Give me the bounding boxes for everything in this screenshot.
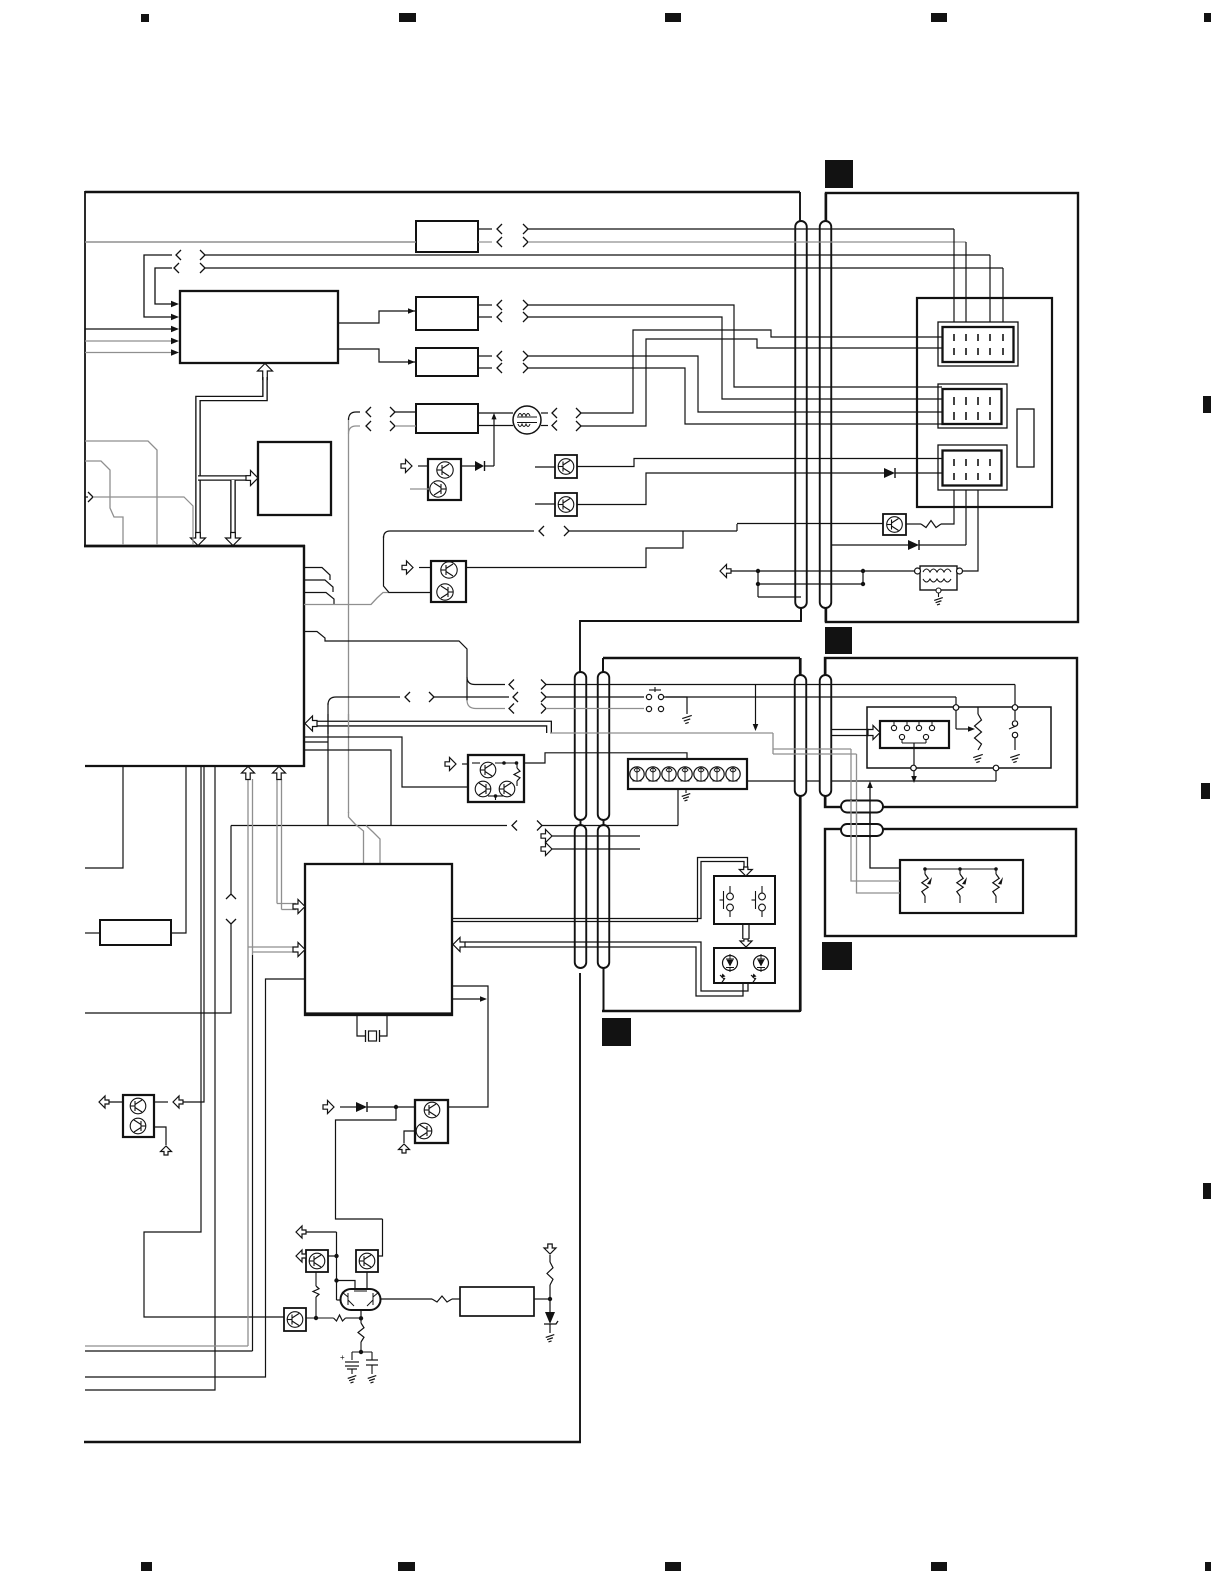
oscillator box X2 — [460, 1287, 534, 1316]
wire L1 to CN201 staircase 1 — [581, 330, 942, 413]
hollow bus arrow into CPU top 2 — [226, 533, 241, 546]
display board bottom edge — [602, 1010, 800, 1013]
wire y684.5 resume — [541, 680, 546, 690]
inner box bottom nodes — [911, 765, 917, 771]
Q16 output resistor to Q17 emitter node — [306, 1317, 334, 1319]
wire with breaks y708.5 gray resume — [541, 704, 546, 714]
Q9 wires — [535, 503, 555, 505]
wire x231 with breaks — [85, 924, 231, 1013]
B2 outputs — [478, 304, 492, 306]
main board outline right lower vertical — [579, 973, 581, 1443]
wire with breaks y697 — [327, 703, 329, 826]
hollow bus branch to box B5 — [198, 475, 250, 481]
push switch S202 — [1012, 705, 1018, 711]
T201 center tap ground — [936, 588, 941, 593]
pot ground — [973, 754, 983, 762]
verticals crossing CN5 capsules — [869, 800, 871, 838]
open arrow VCC top — [296, 1226, 306, 1238]
registration mark bottom 1 — [141, 1562, 152, 1571]
transistor box Q10/Q11 — [123, 1095, 154, 1137]
main board outline left edge (upper part only) — [84, 191, 86, 547]
block FL tube driver box — [416, 221, 478, 252]
sensor top rail — [925, 868, 996, 870]
registration mark top 2 — [399, 13, 416, 22]
Q3 output staircase to cable — [466, 531, 683, 568]
hollow bus branch 2 — [230, 480, 236, 541]
U1 input arrows from left — [85, 328, 173, 330]
cable CN1 capsule a — [795, 221, 807, 608]
LED array ground — [685, 789, 687, 793]
cable CN5 horizontal capsule a — [841, 801, 883, 813]
volume pot VR201 — [975, 714, 982, 750]
tuner inner shield box — [917, 298, 1052, 507]
control board outline — [825, 658, 1077, 807]
hollow pair wrap to diode box bottom — [465, 942, 748, 991]
transistor box Q12/Q13 — [415, 1100, 448, 1143]
wire L1 to CN201 staircase 2 — [581, 339, 942, 426]
CPU outputs to Q-box3 — [304, 737, 468, 787]
transformer T201 — [920, 566, 957, 590]
tuner board outline — [826, 193, 1078, 622]
registration mark bottom 5 — [1205, 1562, 1211, 1571]
Q12 input diode — [340, 1106, 356, 1108]
Q2 input wire — [410, 488, 429, 490]
transistor box Q16 — [284, 1308, 306, 1331]
open arrows to cable CN3 — [541, 830, 552, 843]
wire y825 with breaks — [231, 825, 507, 827]
hollow bus arrow into CPU top 1 — [191, 533, 206, 546]
box B5 EEPROM — [258, 442, 331, 515]
Q1 output diode — [461, 465, 475, 467]
transistor box Q5/Q6/Q7 with resistor — [468, 755, 524, 802]
wire box B6 — [100, 920, 171, 945]
wires cable to sensor board — [870, 786, 900, 868]
hollow bus arrow into box B5 — [246, 471, 258, 486]
hollow bus arrow up into U1 — [258, 364, 273, 380]
LED array leds — [630, 767, 740, 781]
registration mark bottom 4 — [931, 1562, 947, 1571]
CPU output step wires right — [304, 568, 330, 581]
CPU2 left hollow arrows — [277, 903, 296, 905]
connector CN201 outer — [938, 322, 1018, 366]
connector CN202 outer — [938, 384, 1007, 428]
line D202 up to CN203 — [919, 544, 966, 546]
IC block U1 (tuner controller) — [180, 291, 338, 363]
main board lower link line — [580, 608, 801, 672]
wire CPU to border via x123 — [85, 766, 123, 868]
transistor box Q1/Q2 — [428, 459, 461, 500]
registration mark right 1 — [1203, 396, 1211, 413]
connector CN202 inner — [943, 389, 1002, 424]
branch to Q17 left collector — [337, 1281, 356, 1291]
wire with break into CPU — [85, 496, 88, 498]
gray rail to boards — [550, 732, 773, 734]
S1 wire to ground — [664, 697, 687, 714]
dual transistor oval Q17 — [341, 1289, 381, 1310]
resistor to VCC arrow — [549, 1285, 551, 1299]
junction wires near cable — [756, 569, 760, 573]
Q5 input arrow — [462, 763, 468, 765]
LED array box — [628, 759, 747, 789]
wire y531 with breaks — [384, 531, 535, 538]
Q11 output down arrow — [154, 1127, 166, 1145]
zener diode — [549, 1299, 551, 1312]
block B3 box — [416, 348, 478, 376]
bar antenna coil L1 — [478, 412, 513, 414]
tuner small module box — [1017, 409, 1034, 467]
cable CN5 horizontal capsule b — [841, 824, 883, 836]
registration mark top 5 — [1204, 13, 1211, 22]
registration mark bottom 3 — [665, 1562, 681, 1571]
panel common rail — [747, 780, 996, 782]
Q1 input arrow — [418, 465, 428, 467]
U1 input wire with corner 1 — [155, 268, 173, 304]
wire x204 — [179, 766, 204, 1102]
registration mark right 2 — [1201, 783, 1210, 799]
cable CN1 capsule b — [825, 193, 827, 222]
registration mark top 1 — [141, 14, 149, 22]
Q10 side arrows — [105, 1101, 123, 1103]
gray pair A to border — [85, 1345, 248, 1347]
rotary encoder block S201 — [880, 721, 949, 748]
transistor box Q3/Q4 — [431, 561, 466, 602]
cable CN4 capsule b — [820, 675, 832, 796]
main board stub to cable CN1 — [799, 192, 801, 222]
display board top edge — [603, 657, 800, 659]
display board right edge — [799, 658, 801, 1012]
big open arrow into encoder — [832, 729, 869, 731]
transistor box Q14 — [306, 1250, 328, 1272]
display board left edge stubs — [602, 658, 604, 673]
control inner box — [867, 707, 1051, 768]
Q7 output to LED array — [524, 753, 687, 763]
connector CN201 pins — [954, 334, 1003, 355]
Q15 emitter to Q17 — [366, 1272, 368, 1289]
wire y697 resume to switch — [541, 692, 546, 702]
section marker B — [825, 627, 852, 654]
registration mark top 4 — [931, 13, 947, 22]
diode D202 — [832, 544, 908, 546]
main board outline top edge — [85, 191, 800, 193]
encoder common wire down — [913, 743, 915, 778]
long gray vertical bus — [348, 418, 350, 813]
registration mark bottom 2 — [398, 1562, 415, 1571]
Q3 input arrow — [419, 567, 431, 569]
Q13 output — [404, 1131, 415, 1143]
Q8 wires — [535, 466, 555, 468]
transistor box Q15 — [356, 1250, 378, 1272]
Q14 output to rail — [328, 1255, 337, 1257]
cable CN3 capsule b — [598, 825, 610, 968]
oscillator output node — [534, 1298, 550, 1300]
T201 wires — [758, 570, 915, 572]
Q12 branch down — [336, 1107, 397, 1219]
gray hollow pair B — [276, 779, 278, 904]
gray supply line to box — [85, 241, 416, 243]
gray hollow pair A — [247, 779, 249, 1346]
Q14 input arrow — [296, 1250, 306, 1262]
registration mark right 3 — [1203, 1183, 1211, 1199]
transistor box Q9 — [555, 493, 577, 516]
cable CN4 stubs — [799, 796, 801, 1011]
hollow pair CPU2 to IR receiver — [452, 862, 744, 919]
section marker C — [822, 942, 852, 970]
wire drops into CN201 — [953, 229, 955, 322]
sensor board outline — [825, 829, 1076, 936]
photo diodes — [723, 956, 738, 971]
B4 inputs with breaks — [349, 412, 361, 420]
cable CN3 capsule a — [575, 825, 587, 968]
long wires from U1 area to tuner — [200, 250, 205, 260]
switch ground — [1010, 754, 1020, 762]
photo sensor elements — [922, 867, 1003, 903]
connector CN202 pins — [954, 397, 990, 420]
diode D201 — [884, 468, 895, 478]
U1 to B2 wire — [338, 311, 416, 323]
svg-text:+: + — [340, 1353, 345, 1362]
sensor inner box — [900, 860, 1023, 913]
CPU2 block U3 — [305, 864, 452, 1015]
connector CN201 inner — [943, 327, 1014, 362]
power rail vertical — [336, 1232, 338, 1300]
main board outline bottom edge — [84, 1441, 581, 1443]
hollow arrow IR receiver to diode box — [742, 924, 744, 939]
IR receiver box — [714, 876, 775, 924]
control wires down to nodes — [1014, 685, 1016, 705]
pot top node — [953, 705, 959, 711]
cable CN2 capsule a — [575, 672, 587, 820]
B3 outputs — [478, 355, 492, 357]
hollow bus main path — [198, 377, 265, 541]
hollow wire into CPU right edge — [310, 724, 549, 733]
redraw crossing verticals over hollow wire — [327, 714, 329, 734]
switch S1 — [646, 687, 663, 712]
U1 to B3 wire — [338, 349, 416, 362]
Q14 resistor down — [315, 1272, 317, 1286]
CPU output lower step — [304, 632, 467, 702]
cable CN2/CN3 stubs — [580, 820, 582, 825]
transistor box Q8 — [555, 455, 577, 478]
IR receiver elements — [720, 886, 766, 917]
U1 input wire with corner 2 — [144, 255, 173, 317]
Q201 wires + resistor R201 — [906, 523, 921, 525]
CPU block U2 (open left side) — [84, 545, 305, 548]
block B2 box — [416, 297, 478, 330]
L1 outputs with breaks — [541, 412, 548, 414]
CPU2 right outputs — [448, 986, 488, 1107]
cable CN1 stubs — [800, 608, 802, 621]
crystal X1 — [357, 1015, 365, 1036]
connector CN203 pins — [954, 459, 990, 480]
L1 junction arrow and Q1 diode riser — [493, 417, 495, 466]
hanger arrow on y684.5 — [755, 685, 757, 727]
connector CN203 outer — [938, 445, 1007, 490]
registration mark top 3 — [665, 13, 681, 22]
wire x215 — [85, 766, 215, 1390]
wires into CPU from left rounded — [85, 441, 157, 545]
block B4 box (AM loop) — [416, 404, 478, 433]
wire x265 — [85, 979, 305, 1377]
cable CN4 capsule a — [795, 675, 807, 796]
transistor box Q201 — [883, 514, 906, 535]
Q17 output right to oscillator — [381, 1298, 433, 1300]
cable CN2 capsule b — [598, 672, 610, 820]
wires down into CPU2 top — [349, 812, 364, 864]
wire resist to CN203 row — [758, 458, 942, 460]
CPU gray output to Q-box2 — [304, 593, 389, 605]
Q15 collector from Q12 branch — [378, 1219, 383, 1256]
connector CN203 inner — [943, 451, 1002, 486]
wire cable to panel node — [666, 696, 956, 698]
Q17 emitter resistor down — [358, 1323, 364, 1342]
remote photo diode box — [714, 948, 775, 983]
section marker D — [602, 1018, 631, 1046]
box outputs with breaks — [478, 228, 492, 230]
encoder contacts — [891, 721, 934, 743]
wire x201 long — [144, 766, 284, 1317]
decoupling caps — [359, 1350, 363, 1354]
section marker A — [825, 160, 853, 188]
